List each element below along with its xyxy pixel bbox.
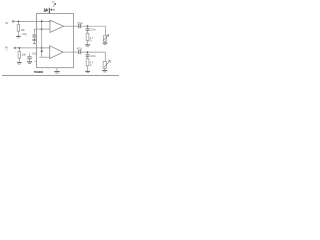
ground R2 <box>17 62 22 64</box>
svg-text:TDA2822: TDA2822 <box>34 70 44 74</box>
wire output 2 cont <box>81 51 105 53</box>
svg-text:10k: 10k <box>22 53 27 57</box>
capacitor C3 <box>32 34 36 36</box>
pot P2 body <box>103 61 106 68</box>
ground R4 <box>85 70 90 72</box>
wire C5 to R3 <box>87 30 89 33</box>
junction node E <box>41 47 43 49</box>
wire R4 to ground <box>87 66 89 71</box>
pot P1 arrow <box>103 35 108 41</box>
junction node G <box>87 25 89 27</box>
wire C3 to ground <box>33 37 35 43</box>
ground R3 <box>85 44 90 46</box>
wire output 2 <box>63 51 78 53</box>
wire pot1 to ground <box>104 41 106 43</box>
wire minus input U1b <box>39 56 50 58</box>
pin 5 stub <box>35 61 37 63</box>
wire C4 top link <box>29 54 31 57</box>
resistor R3 <box>86 33 89 40</box>
capacitor C1 <box>78 24 80 28</box>
wire pot1 drop <box>104 26 106 36</box>
wire R2 drop <box>18 48 20 52</box>
svg-text:470µ: 470µ <box>77 22 83 25</box>
pot P1 body <box>103 36 106 41</box>
capacitor C4 <box>27 56 31 58</box>
wire R1 drop <box>17 21 19 24</box>
op-amp U1b triangle <box>50 46 64 59</box>
pin dot U1a input <box>49 21 50 22</box>
svg-text:Ω: Ω <box>90 39 92 42</box>
wire output 1 cont <box>81 25 105 27</box>
resistor R2 <box>18 52 20 59</box>
supply arrow <box>53 3 56 6</box>
wire R2 to ground <box>18 58 20 62</box>
junction node D <box>41 28 43 30</box>
wire R1 to ground <box>17 31 19 36</box>
svg-text:9V: 9V <box>52 0 55 4</box>
svg-text:100n: 100n <box>90 29 96 32</box>
wire input 2 <box>16 47 50 49</box>
wire C3 drop <box>33 29 35 35</box>
supply pin stub <box>48 8 50 14</box>
svg-text:100µ: 100µ <box>32 53 38 56</box>
ground C3 <box>32 39 36 41</box>
ground IC <box>54 71 60 73</box>
wire internal bus <box>41 20 43 58</box>
ground P1 <box>103 42 108 44</box>
ground P2 <box>102 70 107 72</box>
capacitor C2 <box>78 50 80 54</box>
pin dot U1b input <box>49 47 50 48</box>
IC U1 outline box <box>37 13 74 67</box>
wire pot2 to ground <box>104 68 106 70</box>
pot P2 arrow <box>104 61 110 68</box>
svg-text:100n: 100n <box>90 55 96 58</box>
svg-text:470µ: 470µ <box>77 48 83 51</box>
wire output 1 <box>64 25 79 27</box>
op-amp U1a triangle <box>50 20 64 32</box>
junction node C <box>41 21 43 23</box>
resistor R1 <box>17 25 19 32</box>
wire R3 to ground <box>87 41 89 45</box>
ground C4 <box>27 61 32 63</box>
bottom border rail <box>2 75 119 77</box>
ground R1 <box>16 35 21 37</box>
junction node B <box>18 47 20 49</box>
junction node H <box>87 51 89 53</box>
wire pot2 drop <box>104 52 106 61</box>
input terminal J1 <box>12 21 14 23</box>
capacitor C6 <box>86 54 90 56</box>
wire zobel2 drop <box>87 52 89 55</box>
background <box>0 0 121 77</box>
svg-text:4: 4 <box>53 8 55 12</box>
wire input 1 <box>14 20 50 22</box>
resistor R4 <box>86 59 89 66</box>
junction node A <box>18 21 20 23</box>
input terminal J2 <box>14 47 16 49</box>
wire minus input U1a <box>34 28 50 30</box>
svg-text:Ω: Ω <box>90 64 92 67</box>
capacitor C5 <box>86 28 90 30</box>
junction node F <box>41 50 43 52</box>
wire C6 to R4 <box>87 56 89 58</box>
wire zobel1 drop <box>87 26 89 29</box>
wire C4 to ground <box>29 59 31 62</box>
svg-text:10k: 10k <box>21 28 26 32</box>
svg-text:100µ: 100µ <box>22 33 28 36</box>
ground pin stub <box>56 68 58 72</box>
